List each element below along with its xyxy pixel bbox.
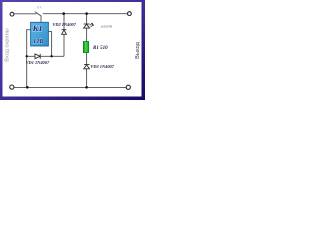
svg-text:ВК: ВК <box>37 6 42 10</box>
svg-text:VD2 1N4007: VD2 1N4007 <box>52 22 76 27</box>
svg-text:АЛ307Б: АЛ307Б <box>100 24 112 28</box>
svg-text:12В: 12В <box>33 38 44 45</box>
svg-text:VD3 1N4007: VD3 1N4007 <box>90 64 114 69</box>
svg-text:Вход охраны: Вход охраны <box>4 28 10 61</box>
svg-text:R1 510: R1 510 <box>93 46 108 51</box>
svg-text:К1: К1 <box>32 23 43 33</box>
svg-text:Выход: Выход <box>135 41 141 58</box>
svg-text:VD1 1N4007: VD1 1N4007 <box>26 60 50 65</box>
